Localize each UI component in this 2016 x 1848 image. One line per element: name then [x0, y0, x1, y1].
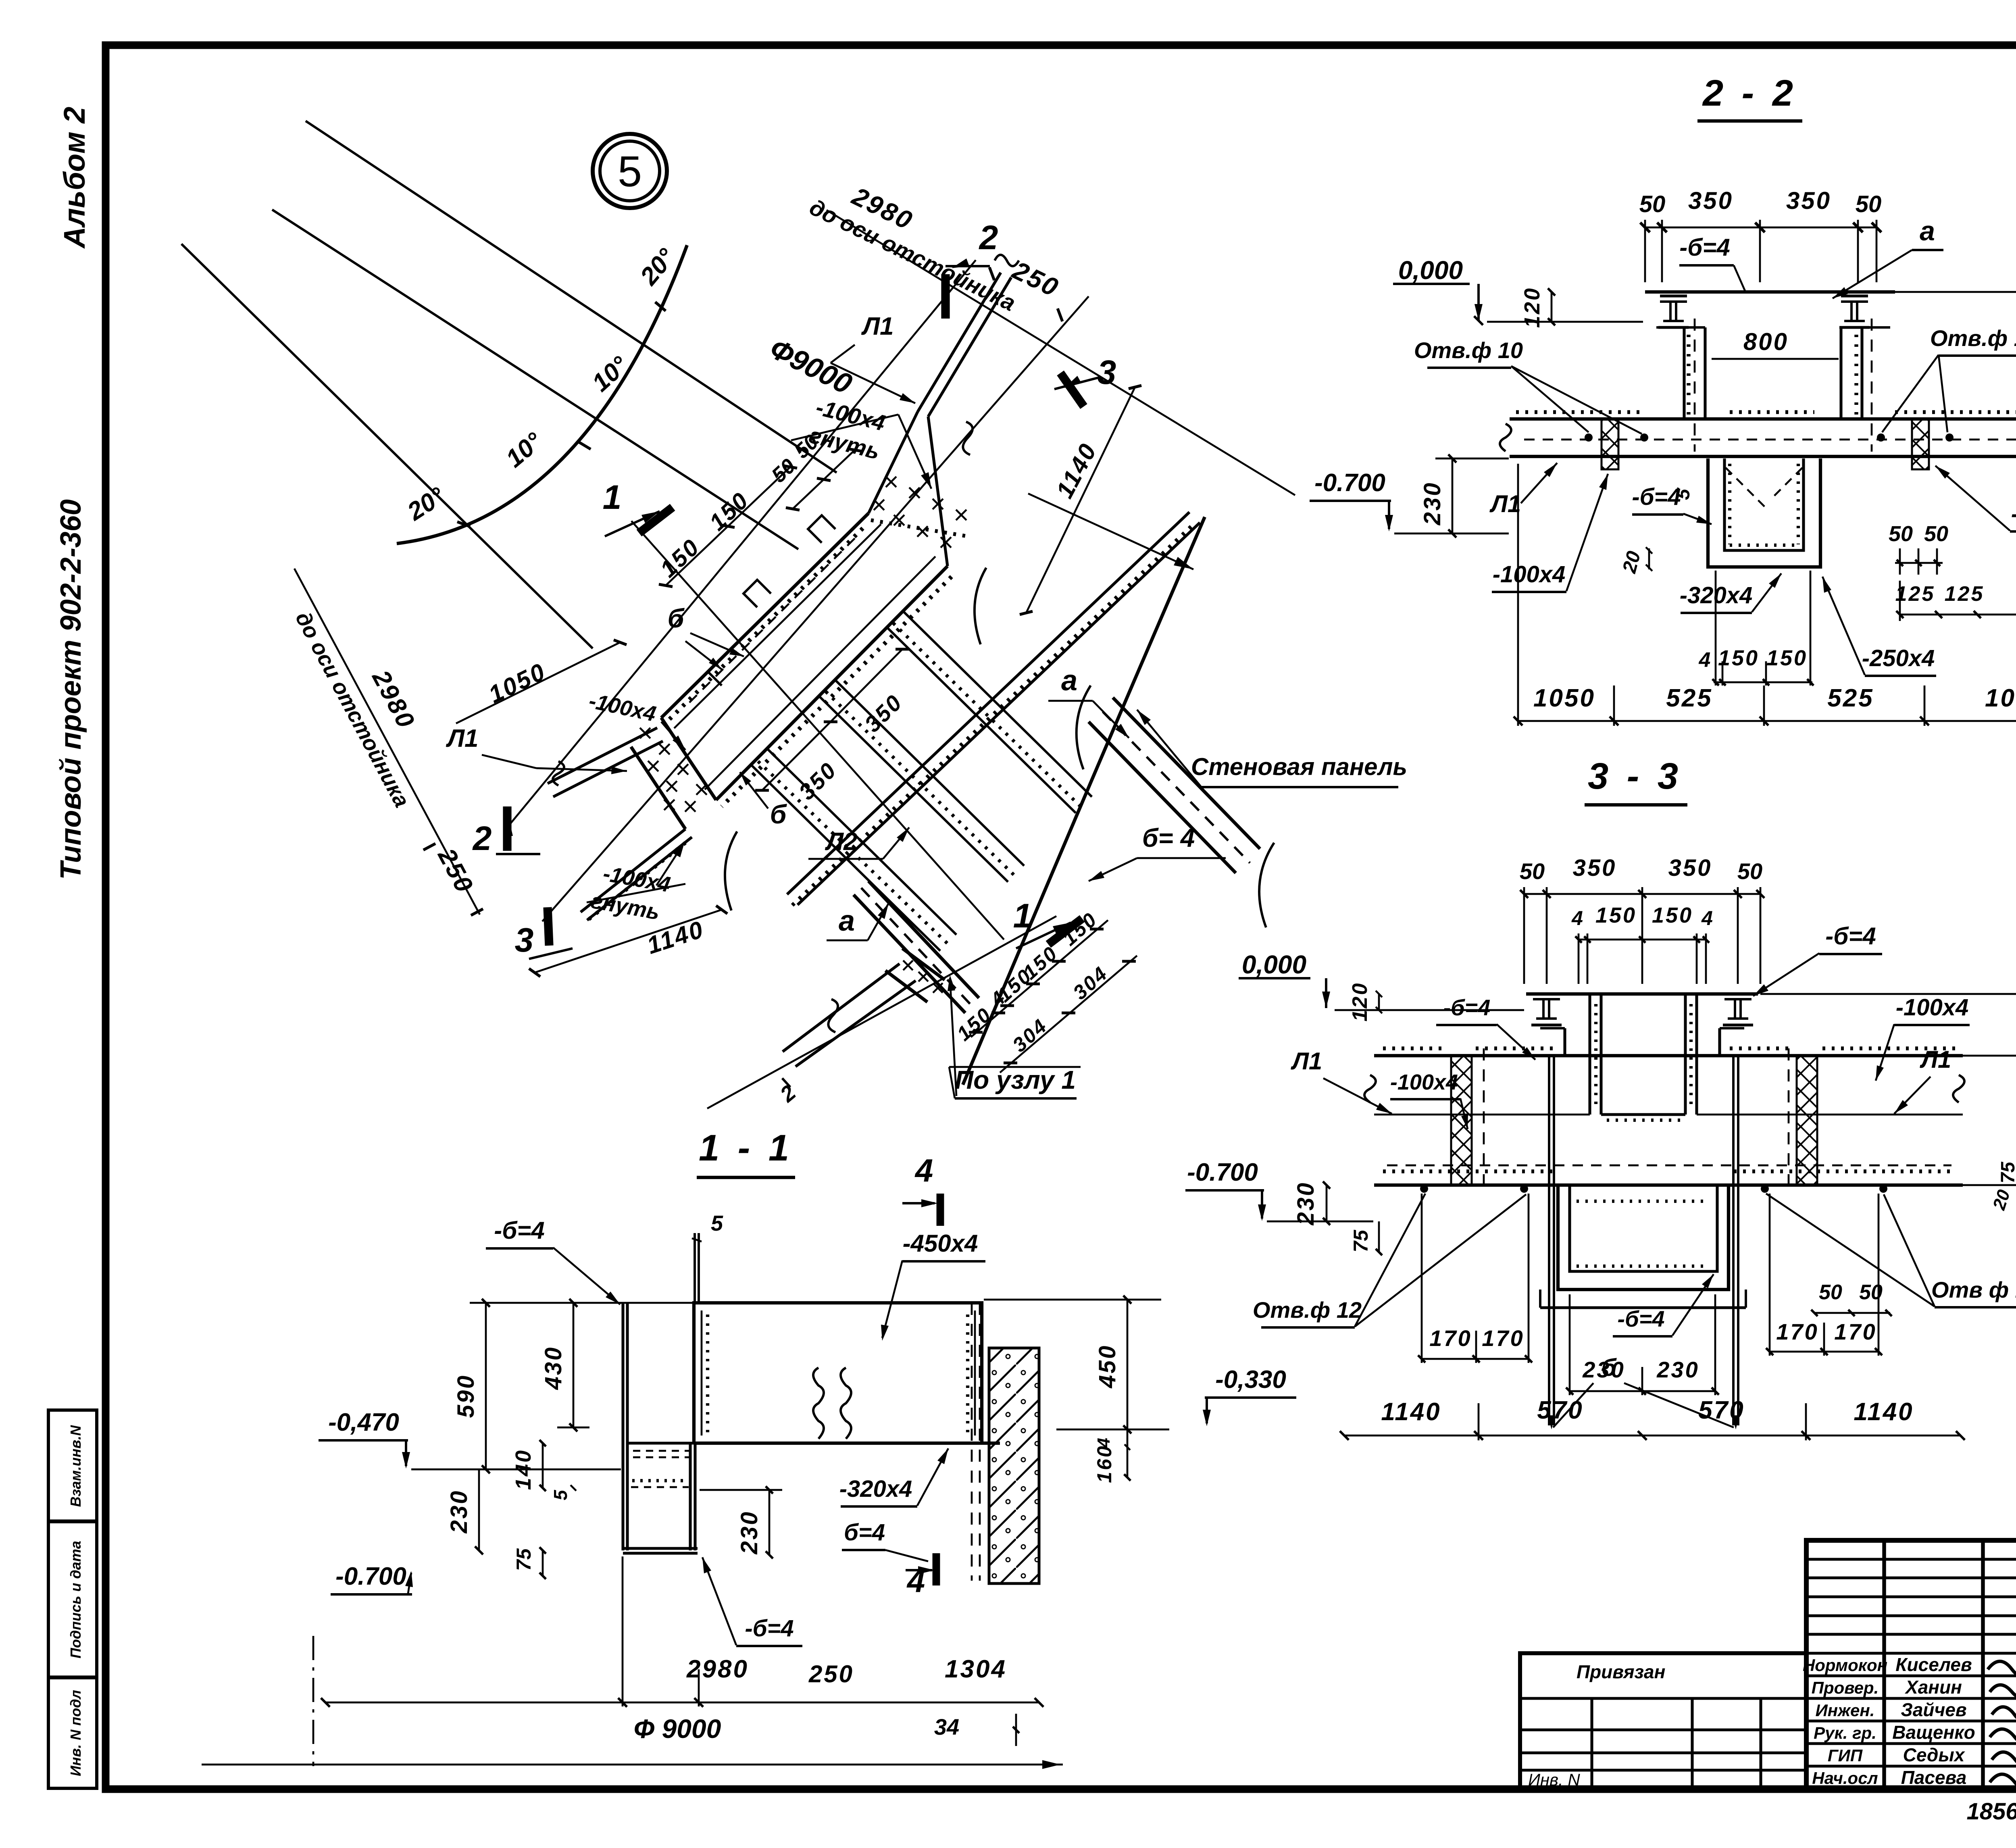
- title block outer box: [1806, 1540, 2016, 1789]
- left joint hatch: [659, 744, 670, 754]
- svg-text:-250x4: -250x4: [1862, 645, 1935, 671]
- dim 1140 upper-right: [1026, 387, 1135, 613]
- svg-text:230: 230: [1419, 481, 1445, 526]
- svg-text:1 - 1: 1 - 1: [699, 1127, 793, 1169]
- upper joint teeth: [871, 520, 968, 536]
- dim 350 между планками 1: [831, 649, 902, 722]
- svg-text:-100x4: -100x4: [1896, 994, 1969, 1021]
- svg-text:-б=4: -б=4: [745, 1615, 793, 1642]
- svg-text:800: 800: [1743, 328, 1789, 355]
- upper arm bend corner гнуть: [868, 412, 918, 513]
- upper channel arm Л1: [918, 273, 1001, 412]
- svg-text:150: 150: [1718, 646, 1759, 670]
- svg-text:350: 350: [1786, 187, 1831, 214]
- 3-3 right rail post: [1724, 992, 1752, 995]
- 1-1 bottom flange line: [627, 1442, 694, 1444]
- left narrow arm Л1: [548, 728, 657, 783]
- svg-text:б: б: [770, 799, 787, 829]
- svg-text:125: 125: [1945, 582, 1985, 606]
- svg-text:170: 170: [1834, 1319, 1876, 1344]
- svg-text:Отв.ф 10: Отв.ф 10: [1930, 325, 2016, 351]
- svg-text:Пасева: Пасева: [1901, 1767, 1967, 1788]
- svg-text:450: 450: [1094, 1344, 1120, 1389]
- svg-text:Типовой проект 902-2-360: Типовой проект 902-2-360: [55, 499, 87, 880]
- svg-text:230: 230: [736, 1510, 762, 1555]
- tank wall arc Ф9000: [397, 245, 687, 544]
- 3-3 box side walls: [1563, 1028, 1566, 1056]
- svg-text:-0,330: -0,330: [1215, 1366, 1286, 1394]
- svg-text:570: 570: [1537, 1396, 1583, 1424]
- 2-2 right joint strap -100x4: [1912, 419, 1929, 469]
- 1-1 big box 450x4: [694, 1303, 982, 1443]
- small plate tabs on band: [744, 580, 771, 607]
- svg-text:-0.700: -0.700: [1314, 469, 1385, 497]
- break wave on dim extension: [963, 422, 973, 455]
- transverse strips teeth: [893, 623, 1081, 806]
- svg-text:350: 350: [1573, 855, 1617, 881]
- svg-text:Стеновая панель: Стеновая панель: [1191, 753, 1407, 780]
- tank wall arc outer right: [963, 517, 1205, 1085]
- svg-text:3: 3: [1098, 353, 1116, 391]
- svg-text:Взам.инв.N: Взам.инв.N: [67, 1425, 84, 1507]
- 1-1 bottom dim chain: [325, 1702, 1039, 1704]
- svg-text:170: 170: [1776, 1319, 1818, 1344]
- svg-text:Инжен.: Инжен.: [1816, 1701, 1875, 1720]
- 1-1 centerline: [312, 1636, 314, 1766]
- svg-text:2: 2: [472, 819, 492, 857]
- svg-text:Рук. гр.: Рук. гр.: [1814, 1723, 1876, 1742]
- dim chain 304 304: [1000, 956, 1137, 1073]
- arrow to wall arc: [1028, 494, 1193, 569]
- axis line до оси отстойника left: [294, 569, 480, 915]
- svg-text:2 - 2: 2 - 2: [1702, 73, 1797, 114]
- svg-text:50: 50: [1737, 858, 1762, 884]
- axis line до оси отстойника top: [827, 210, 1295, 495]
- radial line 10deg: [272, 210, 798, 549]
- svg-text:-б=4: -б=4: [1443, 995, 1490, 1020]
- node marker circle 5: [593, 134, 667, 208]
- svg-text:Л1: Л1: [861, 313, 893, 340]
- svg-text:230: 230: [1293, 1181, 1319, 1226]
- svg-text:590: 590: [453, 1374, 479, 1418]
- 2-2 floor plate Л1: [1510, 417, 2016, 421]
- svg-text:5: 5: [618, 147, 642, 196]
- weld teeth on band top: [669, 528, 863, 719]
- svg-text:По узлу 1: По узлу 1: [955, 1065, 1076, 1094]
- list Л2 strip: [787, 512, 1189, 894]
- svg-text:50: 50: [1856, 191, 1882, 217]
- dim 150 150 upper: [666, 467, 790, 585]
- weld teeth on band bottom: [722, 577, 952, 806]
- svg-text:а: а: [1920, 216, 1935, 246]
- dim 1050: [456, 642, 620, 723]
- dim 1140 bottom-left: [535, 910, 722, 973]
- svg-text:Нач.осл: Нач.осл: [1812, 1769, 1878, 1788]
- 2-2 left rail post: [1660, 294, 1687, 297]
- lower left wall line: [581, 829, 685, 912]
- title block left columns: [1882, 1540, 1886, 1789]
- svg-text:Киселев: Киселев: [1895, 1654, 1972, 1675]
- upper joint hatch marks: [886, 477, 896, 487]
- svg-text:230: 230: [1582, 1357, 1625, 1382]
- 1-1 left thin plate: [621, 1303, 624, 1550]
- svg-text:1140: 1140: [1381, 1398, 1441, 1426]
- svg-text:Инв. N подл: Инв. N подл: [67, 1690, 84, 1776]
- 1-1 outlet channel: [689, 1443, 691, 1550]
- 3-3 dim chain 4 150 150 4: [1579, 939, 1706, 941]
- svg-text:18560-01: 18560-01: [1966, 1798, 2016, 1825]
- 3-3 left joint strap: [1451, 1056, 1472, 1185]
- svg-text:250: 250: [808, 1660, 854, 1688]
- svg-text:170: 170: [1482, 1325, 1524, 1351]
- lower outlet joint block: [902, 948, 945, 980]
- svg-text:Л1: Л1: [1291, 1048, 1322, 1075]
- svg-text:1140: 1140: [1854, 1398, 1914, 1426]
- 2-2 right rail post: [1841, 294, 1868, 297]
- svg-text:Привязан: Привязан: [1577, 1661, 1665, 1682]
- outlet arm centerline: [707, 916, 1056, 1108]
- svg-text:2: 2: [979, 219, 998, 256]
- svg-text:-б=4: -б=4: [1679, 234, 1730, 261]
- svg-text:140: 140: [511, 1449, 535, 1490]
- 2-2 top plate line: [1645, 290, 1895, 294]
- margin stamp table: [48, 1410, 97, 1788]
- transverse strip b3: [767, 748, 956, 935]
- 3-3 right joint strap: [1797, 1056, 1817, 1185]
- transverse strip b1: [902, 610, 1092, 797]
- main channel band top edge: [661, 513, 868, 718]
- svg-text:4: 4: [1701, 907, 1713, 929]
- stamp table Привязан: [1520, 1653, 1806, 1789]
- svg-text:Седых: Седых: [1903, 1744, 1966, 1765]
- transverse strip b2: [835, 679, 1024, 866]
- radial line 20deg lower: [181, 244, 593, 648]
- svg-text:0,000: 0,000: [1398, 256, 1463, 285]
- svg-text:230: 230: [446, 1490, 472, 1534]
- svg-text:150: 150: [1595, 903, 1637, 927]
- svg-text:350: 350: [1688, 187, 1733, 214]
- svg-text:50: 50: [1924, 522, 1948, 546]
- dim 50 50 top: [793, 450, 855, 509]
- svg-text:Л1: Л1: [446, 725, 478, 752]
- svg-text:ГИП: ГИП: [1828, 1746, 1863, 1765]
- svg-text:а: а: [1061, 665, 1077, 697]
- svg-text:430: 430: [540, 1346, 566, 1390]
- svg-text:-450x4: -450x4: [903, 1230, 978, 1257]
- 2-2 central trough: [1708, 458, 1820, 567]
- 3-3 dim chain top 50 350 350 50: [1524, 893, 1760, 895]
- 3-3 underplate below trough: [1540, 1306, 1746, 1309]
- section cut line 1-1: [631, 521, 1004, 940]
- svg-text:4: 4: [914, 1152, 933, 1188]
- svg-text:350: 350: [1668, 855, 1712, 881]
- svg-text:1304: 1304: [945, 1655, 1007, 1683]
- 3-3 bottom trough: [1558, 1185, 1729, 1290]
- svg-text:Зайчев: Зайчев: [1901, 1699, 1966, 1720]
- svg-text:570: 570: [1698, 1396, 1745, 1424]
- wall panel a upper: [1089, 722, 1236, 873]
- 2-2 left channel wall: [1683, 327, 1685, 419]
- svg-text:150: 150: [1652, 903, 1693, 927]
- svg-text:50: 50: [1639, 191, 1666, 217]
- svg-text:4: 4: [1571, 907, 1583, 929]
- svg-text:Л1: Л1: [1920, 1046, 1951, 1073]
- title block name rows: [1806, 1652, 2016, 1654]
- 2-2 left joint strap -100x4: [1602, 419, 1618, 469]
- 1-1 dim Ф9000: [202, 1764, 1063, 1766]
- svg-text:230: 230: [1656, 1357, 1699, 1382]
- svg-text:125: 125: [1895, 582, 1935, 606]
- 2-2 right channel wall: [1839, 327, 1842, 419]
- svg-text:Ф 9000: Ф 9000: [634, 1714, 721, 1744]
- 3-3 floor band: [1374, 1054, 1963, 1057]
- svg-text:Отв.ф 10: Отв.ф 10: [1414, 338, 1523, 363]
- svg-text:-0.700: -0.700: [1187, 1158, 1258, 1186]
- svg-text:75: 75: [1997, 1161, 2016, 1183]
- svg-text:160: 160: [1093, 1444, 1116, 1483]
- 3-3 left rail post: [1533, 992, 1560, 995]
- svg-text:Ханин: Ханин: [1904, 1677, 1962, 1698]
- 3-3 central shaft walls: [1588, 994, 1591, 1115]
- svg-text:5: 5: [711, 1211, 723, 1235]
- 1-1 wall panel block: [989, 1348, 1039, 1583]
- svg-text:б= 4: б= 4: [1142, 823, 1195, 852]
- wall panel a lower: [868, 881, 979, 998]
- 3-3 top plate line: [1526, 992, 1758, 996]
- 3-3 pendant plate left: [1548, 1056, 1550, 1425]
- wall panel a upper break arcs: [1077, 685, 1091, 769]
- 3-3 bottom dim chain: [1344, 1435, 1960, 1437]
- wall break arc near left block: [725, 831, 737, 910]
- svg-text:1050: 1050: [1533, 684, 1595, 712]
- svg-text:-б=4: -б=4: [1617, 1306, 1664, 1331]
- svg-text:Отв.ф 12: Отв.ф 12: [1253, 1297, 1362, 1323]
- svg-text:150: 150: [1766, 646, 1808, 670]
- 3-3 pendant plate right: [1732, 1056, 1735, 1425]
- lower outlet arm По узлу 1: [783, 964, 900, 1052]
- svg-text:1: 1: [1013, 897, 1032, 935]
- radial line 20deg: [306, 121, 837, 473]
- svg-text:170: 170: [1429, 1325, 1472, 1351]
- svg-text:0,000: 0,000: [1242, 950, 1306, 979]
- svg-text:Л1: Л1: [1489, 490, 1521, 517]
- svg-text:-100x4: -100x4: [2011, 501, 2016, 527]
- svg-text:75: 75: [512, 1548, 535, 1571]
- svg-text:1: 1: [603, 478, 622, 516]
- svg-text:-100x4: -100x4: [1390, 1070, 1458, 1094]
- section cut line 2-2: [507, 260, 976, 827]
- 2-2 bottom dim chain: [1518, 720, 2016, 722]
- svg-text:-320x4: -320x4: [839, 1476, 912, 1502]
- dim 350 между планками 2: [762, 722, 831, 790]
- svg-text:а: а: [839, 905, 855, 937]
- svg-text:3: 3: [515, 921, 534, 959]
- svg-text:Альбом 2: Альбом 2: [58, 107, 91, 249]
- wall break arc near upper arm: [975, 568, 986, 644]
- svg-text:120: 120: [1348, 982, 1372, 1022]
- svg-text:50: 50: [1889, 522, 1913, 546]
- svg-text:5: 5: [550, 1490, 571, 1500]
- svg-text:Отв ф 12: Отв ф 12: [1931, 1277, 2016, 1302]
- svg-text:Подпись и дата: Подпись и дата: [67, 1541, 84, 1658]
- left bend joint block: [661, 718, 716, 800]
- svg-text:Инв. N: Инв. N: [1528, 1770, 1580, 1789]
- arc tick marks: [655, 302, 666, 311]
- svg-text:Нормокон: Нормокон: [1803, 1656, 1887, 1675]
- 1-1 box break marks: [813, 1368, 824, 1439]
- svg-text:-0,470: -0,470: [328, 1408, 399, 1436]
- svg-text:75: 75: [1350, 1229, 1372, 1252]
- svg-text:525: 525: [1666, 684, 1712, 712]
- svg-text:4: 4: [1699, 648, 1711, 672]
- dim chain 150 4 150 150 bottom right: [971, 920, 1108, 1037]
- band inner dashes: [685, 538, 855, 706]
- svg-text:Провер.: Провер.: [1812, 1678, 1879, 1697]
- main channel band bottom edge: [716, 566, 948, 800]
- svg-text:-100x4: -100x4: [1493, 561, 1566, 588]
- svg-text:120: 120: [1520, 287, 1544, 328]
- section cut line 3-3: [542, 296, 1089, 921]
- svg-text:Л2: Л2: [825, 828, 857, 856]
- svg-text:б: б: [668, 603, 685, 633]
- 2-2 dim chain top: [1645, 227, 1876, 229]
- svg-text:525: 525: [1827, 684, 1874, 712]
- stamp upper line: [1492, 1607, 1806, 1608]
- svg-text:34: 34: [934, 1714, 959, 1740]
- svg-text:-б=4: -б=4: [1825, 923, 1876, 950]
- svg-text:-0.700: -0.700: [335, 1563, 406, 1590]
- svg-text:-б=4: -б=4: [494, 1217, 545, 1244]
- title block thin rows: [1806, 1558, 2016, 1560]
- svg-text:50: 50: [1819, 1281, 1842, 1304]
- svg-text:Ващенко: Ващенко: [1892, 1722, 1975, 1743]
- svg-text:2980: 2980: [686, 1655, 749, 1683]
- svg-text:1050: 1050: [1985, 684, 2016, 712]
- title block signatures: [1988, 1660, 2016, 1677]
- svg-text:50: 50: [1520, 858, 1545, 884]
- svg-text:3 - 3: 3 - 3: [1588, 756, 1682, 797]
- svg-text:б=4: б=4: [844, 1519, 885, 1546]
